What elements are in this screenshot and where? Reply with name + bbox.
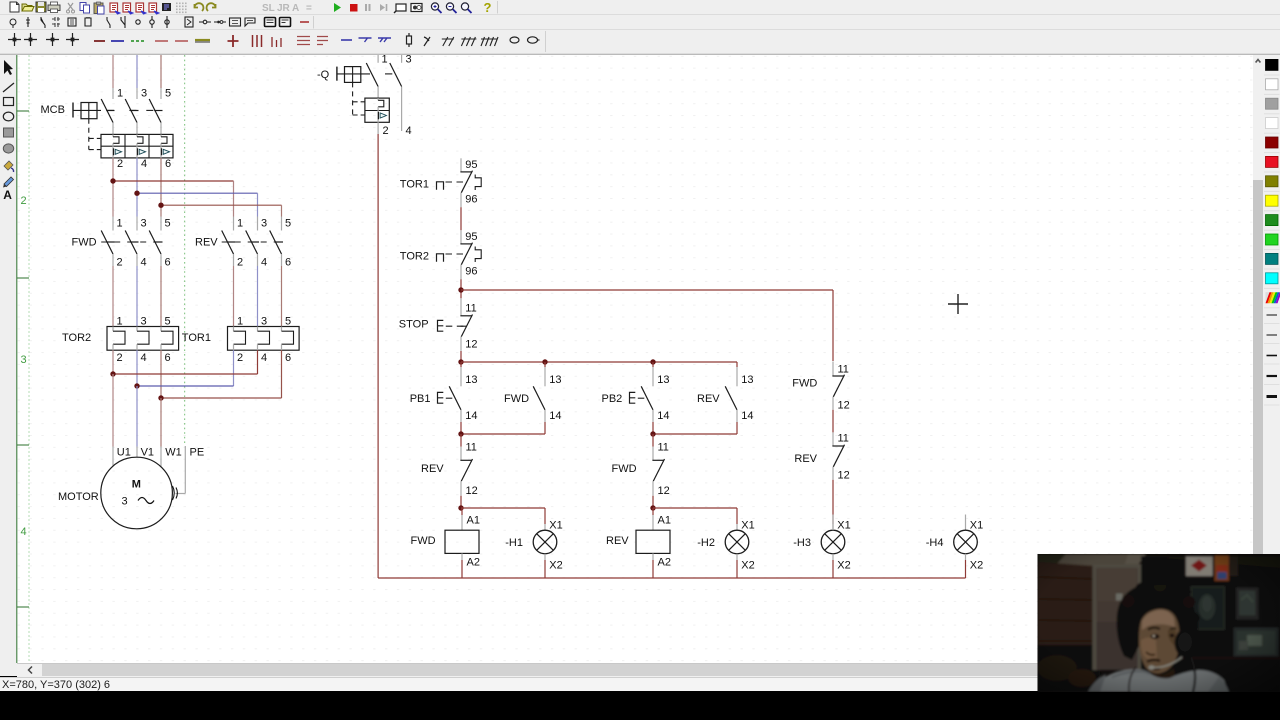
svg-text:A2: A2	[658, 556, 671, 568]
svg-text:12: 12	[466, 485, 478, 497]
svg-text:3: 3	[141, 88, 147, 100]
svg-text:TOR1: TOR1	[400, 179, 429, 191]
lamp -H3	[793, 515, 851, 579]
svg-text:X1: X1	[549, 519, 562, 531]
svg-text:A: A	[292, 3, 299, 14]
svg-text:X1: X1	[741, 519, 754, 531]
coil REV	[606, 508, 671, 578]
svg-text:3: 3	[122, 496, 128, 508]
svg-text:5: 5	[165, 218, 171, 230]
svg-text:PB2: PB2	[602, 393, 623, 405]
svg-text:2: 2	[117, 352, 123, 364]
wire TOR1 to TOR2	[460, 207, 462, 230]
node L1 tap	[110, 178, 115, 183]
node rung FWD branch	[542, 359, 547, 364]
wire seal-in rung	[461, 361, 737, 363]
webcam overlay	[1037, 554, 1280, 693]
node PB1 lower	[458, 431, 463, 436]
pushbutton PB1 (NO)	[410, 362, 478, 434]
svg-text:X2: X2	[837, 560, 850, 572]
svg-text:X2: X2	[741, 560, 754, 572]
wire PB2-REV lower rung	[653, 433, 737, 435]
node control branch	[458, 287, 463, 292]
svg-text:REV: REV	[195, 237, 218, 249]
svg-text:4: 4	[21, 526, 27, 538]
right scrollbar	[1253, 55, 1263, 663]
svg-text:14: 14	[465, 410, 477, 422]
svg-text:96: 96	[465, 194, 477, 206]
svg-text:6: 6	[165, 158, 171, 170]
svg-text:REV: REV	[794, 453, 817, 465]
svg-text:M: M	[132, 479, 141, 491]
svg-text:X1: X1	[837, 519, 850, 531]
svg-text:3: 3	[141, 218, 147, 230]
svg-text:12: 12	[838, 400, 850, 412]
svg-text:5: 5	[285, 218, 291, 230]
wire contactor outputs to overload relays	[113, 266, 282, 327]
svg-text:FWD: FWD	[612, 463, 637, 475]
svg-text:13: 13	[549, 374, 561, 386]
svg-text:13: 13	[741, 374, 753, 386]
svg-text:=: =	[306, 3, 312, 14]
svg-text:W1: W1	[165, 447, 182, 459]
node V tap	[134, 383, 139, 388]
svg-text:2: 2	[237, 352, 243, 364]
svg-text:5: 5	[285, 316, 291, 328]
svg-text:1: 1	[237, 218, 243, 230]
breaker MCB	[41, 88, 174, 171]
node REV coil branch	[650, 505, 655, 510]
thermal release hook TOR2	[475, 247, 481, 263]
svg-text:4: 4	[141, 257, 147, 269]
svg-text:A: A	[3, 188, 12, 202]
node L3 tap	[158, 203, 163, 208]
svg-text:4: 4	[141, 158, 147, 170]
svg-text:PB1: PB1	[410, 393, 431, 405]
svg-text:4: 4	[141, 352, 147, 364]
wire PB1-FWD lower rung	[461, 433, 545, 435]
svg-text:11: 11	[466, 442, 477, 454]
svg-text:5: 5	[165, 316, 171, 328]
svg-text:11: 11	[838, 363, 849, 375]
svg-text:1: 1	[382, 54, 388, 66]
svg-text:1: 1	[117, 218, 123, 230]
breaker -Q	[317, 54, 412, 138]
overload contact TOR1 (NC 95-96)	[400, 158, 478, 207]
svg-text:FWD: FWD	[411, 535, 436, 547]
wire rung to lamp H2	[653, 507, 737, 509]
svg-text:FWD: FWD	[504, 393, 529, 405]
status bar	[0, 677, 1280, 691]
svg-text:X2: X2	[549, 560, 562, 572]
svg-text:-H1: -H1	[505, 537, 523, 549]
thermal release hook TOR1	[475, 175, 481, 191]
column separator dotted line	[184, 55, 186, 444]
svg-text:V1: V1	[141, 447, 154, 459]
svg-text:1: 1	[117, 88, 123, 100]
svg-text:11: 11	[465, 302, 476, 314]
svg-text:X1: X1	[970, 519, 983, 531]
overload relay TOR2 (power)	[62, 316, 179, 365]
lamp -H4	[926, 515, 984, 579]
svg-text:REV: REV	[421, 463, 444, 475]
bottom horizontal scrollbar	[17, 663, 1253, 677]
wire top rung to interlock branch	[461, 290, 833, 361]
right color palette background	[1263, 55, 1280, 663]
svg-text:-H2: -H2	[697, 537, 715, 549]
node PB2 lower	[650, 431, 655, 436]
wire L1 L2 L3 incoming	[113, 55, 161, 99]
svg-text:?: ?	[484, 0, 492, 15]
svg-text:FWD: FWD	[72, 237, 97, 249]
wire bottom control rail	[378, 577, 965, 579]
wire STOP to rung	[460, 351, 462, 362]
bottom black band	[0, 691, 1280, 720]
svg-text:6: 6	[285, 257, 291, 269]
toolbar background	[0, 0, 1280, 55]
wire PE conductor	[176, 446, 186, 494]
wire to motor	[113, 374, 161, 467]
wire phase swap under overload relays	[113, 350, 282, 398]
wire to lamp H3	[832, 480, 834, 524]
svg-text:A2: A2	[467, 556, 480, 568]
svg-text:14: 14	[741, 410, 753, 422]
svg-text:2: 2	[21, 195, 27, 207]
node rung PB2 branch	[650, 359, 655, 364]
overload relay TOR1 (power)	[182, 316, 299, 365]
svg-text:11: 11	[838, 433, 849, 445]
svg-text:3: 3	[21, 354, 27, 366]
node rung left	[458, 359, 463, 364]
wire between lamp-branch contacts	[832, 410, 834, 433]
svg-text:96: 96	[465, 266, 477, 278]
svg-text:95: 95	[465, 231, 477, 243]
mouse crosshair	[948, 294, 968, 314]
lamp -H2	[697, 508, 755, 578]
svg-text:-H4: -H4	[926, 537, 944, 549]
wire MCB outputs with taps to REV	[113, 158, 282, 217]
svg-text:6: 6	[165, 352, 171, 364]
svg-text:TOR2: TOR2	[400, 251, 429, 263]
wire left control rail	[377, 122, 379, 578]
svg-text:4: 4	[261, 257, 267, 269]
svg-text:3: 3	[141, 316, 147, 328]
svg-text:PE: PE	[190, 447, 205, 459]
svg-text:-Q: -Q	[317, 69, 330, 81]
svg-text:4: 4	[261, 352, 267, 364]
svg-text:2: 2	[237, 257, 243, 269]
contact REV interlock (NC 11-12) above FWD coil	[421, 434, 478, 497]
svg-text:13: 13	[657, 374, 669, 386]
svg-text:11: 11	[658, 442, 669, 454]
pushbutton STOP (NC)	[399, 298, 478, 351]
svg-text:1: 1	[117, 316, 123, 328]
svg-text:REV: REV	[697, 393, 720, 405]
contact FWD seal-in (NO 13-14)	[504, 362, 562, 434]
svg-text:STOP: STOP	[399, 319, 429, 331]
motor M1	[58, 447, 204, 529]
svg-text:U1: U1	[117, 447, 131, 459]
node U tap	[110, 371, 115, 376]
svg-text:A1: A1	[467, 514, 480, 526]
svg-text:2: 2	[117, 257, 123, 269]
svg-text:5: 5	[165, 88, 171, 100]
svg-text:14: 14	[549, 410, 561, 422]
svg-text:4: 4	[406, 125, 412, 137]
svg-text:13: 13	[465, 374, 477, 386]
svg-text:FWD: FWD	[792, 378, 817, 390]
svg-text:12: 12	[465, 338, 477, 350]
wire to REV coil node	[652, 496, 654, 508]
svg-text:14: 14	[657, 410, 669, 422]
svg-text:3: 3	[261, 218, 267, 230]
svg-text:95: 95	[465, 159, 477, 171]
svg-text:12: 12	[838, 470, 850, 482]
svg-text:2: 2	[383, 125, 389, 137]
pushbutton PB2 (NO)	[602, 362, 670, 434]
wire TOR2 to STOP node	[460, 279, 462, 298]
svg-text:3: 3	[261, 316, 267, 328]
contact REV (NC) lamp branch	[794, 432, 849, 481]
node W tap	[158, 395, 163, 400]
svg-text:JR: JR	[277, 3, 291, 14]
wire to FWD coil node	[460, 496, 462, 508]
coil FWD	[411, 508, 480, 578]
svg-text:X2: X2	[970, 560, 983, 572]
lamp -H1	[505, 508, 563, 578]
svg-text:-H3: -H3	[793, 537, 811, 549]
contact FWD interlock (NC 11-12) above REV coil	[612, 434, 670, 497]
node FWD coil branch	[458, 505, 463, 510]
contact REV seal-in (NO 13-14)	[697, 362, 754, 434]
contact FWD (NC) lamp branch	[792, 362, 849, 412]
svg-text:TOR1: TOR1	[182, 332, 211, 344]
contactor REV power contacts	[195, 217, 291, 269]
svg-text:A1: A1	[658, 514, 671, 526]
page border frame	[17, 55, 29, 663]
svg-text:1: 1	[237, 316, 243, 328]
svg-text:2: 2	[117, 158, 123, 170]
svg-text:6: 6	[285, 352, 291, 364]
contactor FWD power contacts	[72, 217, 171, 269]
node L2 tap	[134, 191, 139, 196]
svg-text:SL: SL	[262, 3, 275, 14]
wire rung to lamp H1	[461, 507, 545, 509]
left tool palette background	[0, 55, 17, 676]
svg-text:X=780, Y=370 (302) 6: X=780, Y=370 (302) 6	[2, 679, 110, 691]
svg-text:REV: REV	[606, 535, 629, 547]
svg-text:12: 12	[658, 485, 670, 497]
svg-text:MCB: MCB	[41, 104, 65, 116]
svg-text:TOR2: TOR2	[62, 332, 91, 344]
svg-text:MOTOR: MOTOR	[58, 491, 99, 503]
svg-text:3: 3	[406, 54, 412, 66]
svg-text:6: 6	[165, 257, 171, 269]
overload contact TOR2 (NC 95-96)	[400, 230, 478, 279]
